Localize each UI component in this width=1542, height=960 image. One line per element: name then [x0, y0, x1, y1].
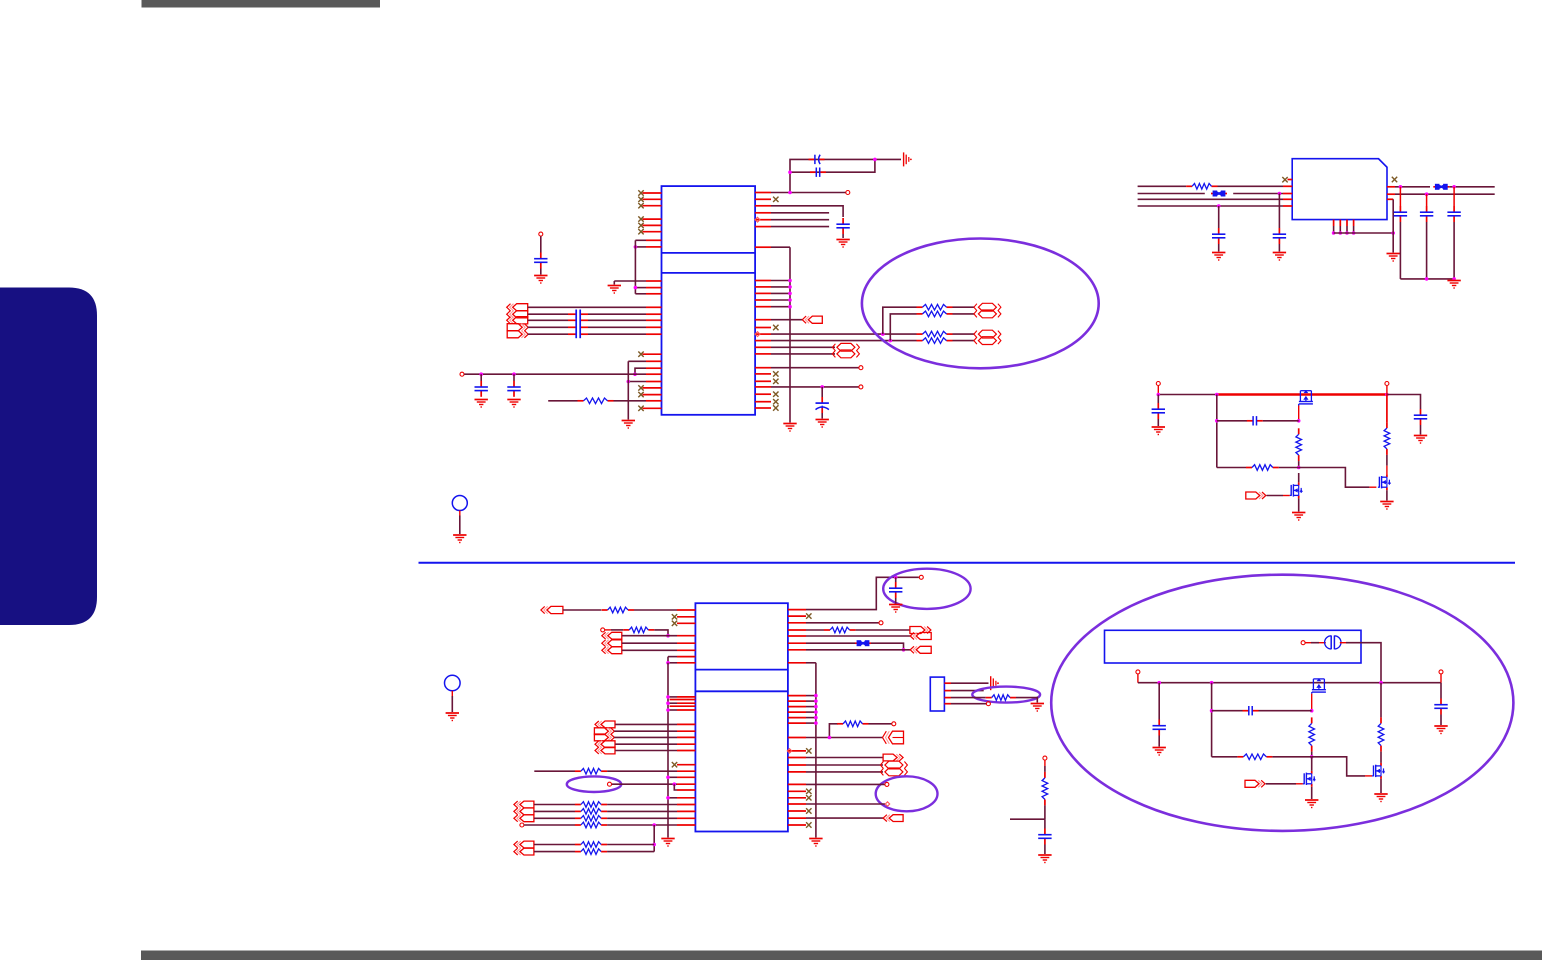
capacitor C-u2a: [889, 577, 902, 603]
capacitor C-p3 series: [1217, 416, 1299, 425]
ground: [1414, 436, 1427, 444]
U2 row 777 junction: [666, 776, 695, 780]
resistor R row 844: [534, 842, 654, 848]
connector J5 dual: [974, 330, 1001, 344]
ground bus vertical 790: [789, 247, 791, 422]
U2 right NC 791: [788, 789, 812, 794]
U2 row 744: [615, 743, 695, 745]
resistor R row 825: [524, 822, 695, 828]
U1 right row 341 long wire: [755, 339, 916, 343]
U2 right row 636: [788, 635, 910, 637]
resistor R-g4: [1309, 717, 1315, 758]
U1 right row 213: [755, 212, 829, 214]
wire ellipse pair2 vertical: [890, 314, 916, 341]
IC U3 box: [930, 677, 944, 711]
connector J15: [514, 815, 534, 822]
capacitor C-col: [1038, 829, 1051, 855]
U2 row 657 corner: [668, 656, 695, 658]
connector J7: [602, 632, 622, 639]
terminal column right: [1043, 756, 1047, 772]
U1 right row 206 to capacitor: [755, 206, 843, 217]
ground: [1273, 253, 1286, 261]
capacitor C-t1: [809, 155, 825, 164]
connector J14: [595, 747, 615, 754]
highlight ellipse small-left: [567, 776, 621, 792]
wire vertical 635: [634, 240, 636, 293]
ground: [661, 839, 674, 847]
capacitor C-a: [475, 374, 488, 397]
wire to Q3 gate: [1299, 468, 1377, 488]
U2 right row 663 corner: [788, 662, 816, 664]
U4 NC pin left: [1282, 177, 1292, 182]
ground: [1380, 502, 1393, 510]
U1 left NC pin y231: [638, 229, 661, 234]
capacitor C-p2: [1414, 409, 1427, 435]
resistor R row 811: [534, 809, 695, 815]
ferrite bead FB3 row 643: [788, 640, 905, 651]
connector J22: [883, 754, 903, 761]
connector gate arrow: [1246, 492, 1290, 499]
capacitor C-t2: [810, 168, 826, 177]
U1 left NC pin y394: [638, 392, 661, 397]
bus wire row 334: [528, 333, 662, 335]
ground: [534, 276, 547, 284]
U2 row 798 junction: [666, 796, 695, 800]
connector J1-2: [507, 311, 528, 318]
resistor R-d2: [1384, 395, 1390, 466]
capacitor C-q1: [1153, 683, 1166, 747]
resistor R-u2a row 610: [563, 607, 696, 613]
ground: [1305, 800, 1318, 808]
U4 right row2: [1387, 192, 1495, 196]
connector J1-3: [507, 317, 528, 324]
capacitor C-u4e: [1447, 187, 1460, 279]
U1 pin row 361 corner: [628, 360, 661, 362]
connector J6: [541, 606, 563, 613]
ground: [1038, 855, 1051, 863]
chassis ground: [991, 676, 999, 690]
ground: [1212, 253, 1225, 261]
connector J11: [594, 728, 614, 735]
capacitor C-u4d: [1420, 194, 1433, 279]
ground: [1153, 748, 1166, 756]
series capacitor bank C-bus: [576, 310, 580, 339]
net label circle 2: [445, 675, 461, 712]
U1 right row 247 corner down: [755, 246, 790, 248]
terminal row 374: [460, 372, 662, 376]
U1 right NC pin y401: [755, 399, 778, 404]
U1 right NC 327: [755, 325, 778, 330]
resistor R-u2b row 771: [534, 768, 695, 774]
ground: [1434, 726, 1447, 734]
capacitor C-p1: [1152, 395, 1165, 427]
connector J9: [602, 647, 622, 654]
capacitor C-b: [507, 374, 520, 397]
U1 right row 293 junction: [755, 292, 792, 296]
U2 right NC 811: [788, 808, 812, 813]
connector J1-5: [507, 331, 528, 338]
ground: [1374, 794, 1387, 802]
U3 row1 to chassis: [944, 682, 988, 684]
IC U4 box: [1292, 159, 1387, 220]
U2 right rows 765-772: [788, 765, 883, 772]
ground: [475, 400, 488, 408]
highlight ellipse small-right: [876, 776, 938, 811]
U1 right NC 199: [755, 197, 778, 202]
U1 left NC pin y193: [638, 190, 661, 195]
U1 right pin row 193 to terminal: [755, 191, 850, 195]
connector J13: [595, 741, 615, 748]
capacitor C-u4b: [1212, 206, 1225, 252]
terminal P3: [1136, 670, 1140, 683]
section divider line: [419, 562, 1516, 564]
U1 left NC pin y225: [638, 223, 661, 228]
connector J20: [910, 646, 931, 653]
U1 left NC pin y205: [638, 203, 661, 208]
U2 left NC 765: [672, 762, 696, 767]
wire gate Q1: [1297, 406, 1301, 423]
U1 pin wire row 247 with junction: [634, 245, 662, 249]
U1 pin row 288 junction: [634, 286, 662, 290]
resistor R-u2d floating: [829, 721, 895, 738]
capacitor C-u4a: [1273, 194, 1286, 252]
wire vertical 654: [652, 825, 656, 852]
connector J19: [910, 633, 931, 640]
MOSFET Q1: [1299, 390, 1313, 405]
connector J24: [883, 815, 903, 822]
U4 row3: [1138, 198, 1293, 200]
resistor R-col: [1042, 772, 1048, 819]
U2 right row 737 connector: [788, 736, 883, 740]
U2 band row 696: [666, 695, 695, 699]
U2 right row 610 riser: [788, 575, 923, 609]
wire Q3 source: [1386, 490, 1388, 500]
U3 row4 terminal: [944, 702, 990, 706]
U1 right NC pin y394: [755, 392, 778, 397]
chassis ground: [904, 152, 912, 166]
MOSFET Q3: [1378, 466, 1391, 491]
U1 right row 286 junction: [755, 285, 792, 289]
U4 row4: [1138, 204, 1293, 208]
connector J18: [910, 627, 931, 634]
U2 right band row 701: [788, 699, 818, 703]
U2 right NC 798: [788, 795, 812, 800]
U1 right row 300 junction: [755, 298, 792, 302]
capacitor C-r2: [816, 387, 829, 419]
U2 band row 710: [666, 708, 695, 712]
ground: [1152, 427, 1165, 435]
U2 row 750: [615, 750, 695, 752]
U2 left NC 623: [672, 621, 696, 626]
terminal row 784: [608, 782, 696, 786]
wire right branch: [1387, 395, 1421, 410]
ground: [507, 400, 520, 408]
connector J3 dual: [832, 343, 859, 357]
ground: [1447, 281, 1460, 289]
ground: [608, 286, 621, 294]
U1 right NC 374: [755, 371, 778, 376]
resistor R-b4: [1212, 754, 1312, 760]
U2 row 643: [622, 642, 696, 644]
connector J17: [514, 848, 534, 855]
U3 row2: [944, 690, 983, 692]
U2 right band row 712: [788, 710, 818, 714]
U2 band row 699: [670, 699, 696, 701]
U2 row 636: [622, 635, 696, 637]
ground: [622, 421, 635, 429]
terminal P2: [1385, 382, 1389, 395]
U2 row 724: [615, 723, 695, 725]
connector J10: [595, 721, 615, 728]
U2 right band row 706: [788, 705, 818, 709]
ferrite bead FB1 row2: [1138, 191, 1293, 197]
U2 right row 757 connector: [788, 757, 883, 759]
connector J1-1: [507, 304, 528, 311]
wire branch 1212: [1210, 683, 1214, 757]
U2 row 650: [622, 649, 696, 651]
U1 right NC pin y408: [755, 405, 778, 410]
connector J15: [514, 808, 534, 815]
U1 pin row 281 to ground: [614, 281, 661, 285]
highlight ellipse large: [1051, 575, 1513, 831]
terminal + resistor row 630: [601, 627, 670, 637]
MOSFET Q2: [1290, 473, 1303, 498]
highlight ellipse small-mid: [972, 687, 1040, 703]
U4 right NC: [1392, 177, 1397, 182]
capacitor C-q3 series: [1212, 706, 1312, 715]
U2 left ground bus: [667, 663, 669, 838]
connector J2: [802, 316, 822, 323]
MOSFET Q5: [1303, 757, 1316, 787]
connector J16: [514, 841, 534, 848]
connector J21 tall: [883, 731, 904, 744]
wire Q2 source: [1298, 498, 1300, 511]
U2 right band row 695: [788, 694, 818, 698]
terminal T-cap: [539, 232, 543, 252]
power rail 2: [1138, 681, 1441, 685]
U1 right row 306 junction: [755, 305, 792, 309]
capacitor C-c: [534, 253, 547, 275]
highlight ellipse small-top: [883, 569, 970, 609]
wire gate Q4: [1310, 694, 1314, 713]
ground: [1292, 513, 1305, 521]
bus wire row 314: [528, 313, 662, 315]
U2 row 663 junction: [666, 657, 695, 665]
net label circle 1: [452, 496, 467, 535]
wire vertical 628: [627, 361, 629, 419]
connector J1-4: [507, 324, 528, 331]
ground: [1387, 254, 1400, 262]
wire to Q6 gate: [1312, 757, 1372, 776]
U2 row 737: [614, 736, 695, 738]
MOSFET Q6: [1372, 763, 1385, 779]
resistor RE4: [917, 338, 975, 344]
ground: [783, 424, 796, 432]
U1 pin row 382 junction: [627, 380, 662, 384]
connector J23 dual: [880, 761, 907, 776]
ground: [453, 535, 466, 543]
U2 right row 818 connector: [788, 817, 883, 819]
resistor RE2: [917, 311, 975, 317]
connector J15: [514, 801, 534, 808]
U1 NC pin 408: [638, 406, 661, 411]
U1 right row 334 long wire: [755, 332, 916, 337]
U4 bottom pins: [1332, 220, 1395, 235]
IC U2 box: [695, 603, 788, 831]
ground: [1031, 704, 1044, 712]
resistor R-left row 401: [548, 398, 661, 404]
terminal P4: [1439, 670, 1443, 683]
wire cap loop: [788, 158, 901, 193]
wire Q6 source: [1380, 779, 1382, 793]
U2 right NC 751: [787, 748, 811, 753]
power rail wire: [1157, 393, 1389, 397]
U1 right rows 347-354 to connector: [755, 347, 835, 354]
U2 right NC 825: [788, 822, 812, 827]
resistor R-d6: [1378, 683, 1384, 763]
terminal X1: [1301, 641, 1326, 645]
IC U1 box: [662, 186, 756, 415]
wire branch 1217: [1215, 395, 1219, 468]
U1 right row 280 junction: [755, 279, 792, 283]
U4 row1 with resistor: [1138, 184, 1293, 190]
U2 band row 706: [670, 705, 696, 707]
capacitor C-q2: [1434, 683, 1447, 725]
wire Q5 source: [1311, 787, 1313, 799]
U2 right row 650: [788, 649, 910, 651]
U1 right row 320 to connector: [755, 319, 802, 321]
U2 right NC 616: [788, 613, 812, 618]
U1 right NC 381: [755, 379, 778, 384]
crystal Y1: [1325, 636, 1341, 650]
U3 row3 resistor to ground: [944, 695, 1037, 703]
resistor R row 852: [534, 849, 654, 855]
U2 band row 703: [666, 701, 695, 705]
U1 left NC pin y387: [638, 385, 661, 390]
MOSFET Q4: [1312, 678, 1326, 693]
U2 row 731: [614, 730, 695, 732]
resistor R row 818: [534, 816, 695, 822]
left side tab: [0, 288, 97, 626]
ground: [836, 240, 849, 248]
bus wire row 327: [528, 326, 662, 328]
ground: [889, 605, 902, 613]
connector J4 dual: [974, 303, 1001, 318]
U2 right row 623 terminal: [788, 621, 883, 625]
connector gate arrow 2: [1245, 780, 1303, 787]
U1 left NC pin y219: [638, 216, 661, 221]
U1 NC pin 354: [638, 352, 661, 357]
wire crystal out: [1340, 643, 1381, 683]
U2 left NC 617: [672, 614, 696, 619]
header bar: [142, 0, 381, 8]
U4 right stub to ground: [1387, 199, 1393, 252]
U2 right band row 723: [788, 721, 818, 725]
resistor R-u2c row 630: [788, 627, 910, 633]
resistor RE1: [917, 304, 975, 310]
connector J8: [602, 640, 622, 647]
U1 pin wire row 240: [635, 239, 661, 241]
ground: [816, 420, 829, 428]
terminal row 825: [520, 823, 524, 827]
bus wire row 307: [528, 306, 662, 308]
capacitor C-u4c: [1394, 187, 1407, 279]
highlight ellipse top: [862, 239, 1099, 369]
ferrite bead FB2: [1433, 184, 1494, 190]
terminal P1: [1156, 382, 1160, 395]
U2 right row 784 terminal: [788, 782, 889, 786]
wire L to row 790: [674, 784, 695, 790]
ground: [809, 839, 822, 847]
U1 right row 387 to terminal: [755, 385, 863, 389]
wire cap bottom bus: [1400, 277, 1455, 281]
wire ellipse pair1 vertical: [883, 307, 917, 334]
resistor R row 804: [534, 802, 695, 808]
U1 pin row 368 corner: [633, 368, 661, 376]
footer bar: [141, 951, 1542, 960]
U4 right row1: [1387, 185, 1430, 189]
U2 right row 804 marker: [788, 802, 890, 806]
U2 right ground bus: [815, 663, 817, 838]
U1 right row 368 to terminal: [755, 366, 863, 370]
ground: [446, 713, 459, 721]
U1 left NC pin y199: [638, 197, 661, 202]
resistor R-g1: [1296, 428, 1302, 469]
connector J12: [594, 734, 614, 741]
resistor RE3: [917, 331, 975, 337]
resistor R-b1: [1217, 465, 1299, 471]
module box: [1105, 630, 1362, 663]
U1 right row 227: [755, 226, 829, 228]
bus wire row 320: [528, 319, 662, 321]
capacitor C-r1: [836, 218, 849, 238]
wire col branch: [1010, 819, 1045, 828]
U2 right band row 717: [788, 716, 818, 720]
U1 right row 220 marker: [755, 217, 829, 222]
U1 pin row 294: [635, 293, 661, 295]
